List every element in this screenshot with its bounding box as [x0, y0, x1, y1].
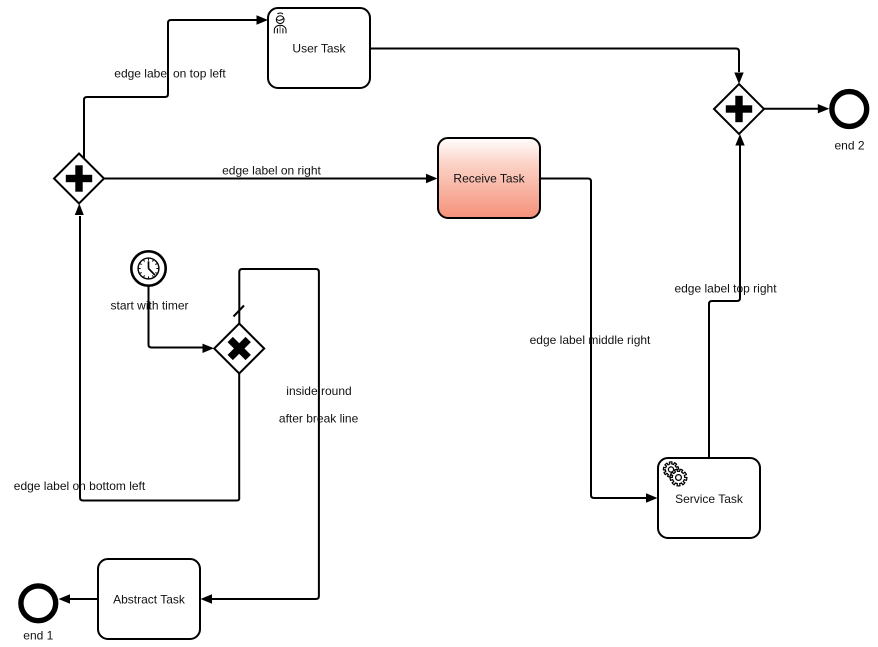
- svg-text:end 1: end 1: [23, 629, 53, 643]
- svg-text:edge label top right: edge label top right: [674, 282, 777, 296]
- svg-text:start with timer: start with timer: [110, 299, 188, 313]
- wire gateway X to Abstract Task (inside round, after break line): [201, 269, 319, 604]
- default flow break slash marker: [234, 306, 245, 317]
- task Service Task: [658, 458, 760, 538]
- end event end 1: [21, 586, 56, 621]
- parallel gateway1: [54, 154, 104, 204]
- svg-text:end 2: end 2: [834, 139, 864, 153]
- wire Abstract Task to end 1: [59, 594, 99, 603]
- timer start event: [131, 251, 165, 285]
- wire Service Task to gateway2: [709, 134, 745, 457]
- svg-text:Service Task: Service Task: [675, 492, 744, 506]
- wire User Task to gateway2: [370, 49, 744, 85]
- svg-text:Abstract Task: Abstract Task: [113, 593, 186, 607]
- svg-text:edge label on bottom left: edge label on bottom left: [14, 479, 146, 493]
- task User Task: [268, 8, 370, 88]
- svg-text:edge label middle right: edge label middle right: [530, 333, 651, 347]
- svg-text:edge label on right: edge label on right: [222, 164, 321, 178]
- wire gateway X to gateway1 (bottom left loop): [75, 204, 239, 501]
- wire Receive Task to Service Task: [540, 179, 658, 503]
- user icon: [274, 13, 286, 33]
- svg-text:inside round: inside round: [286, 384, 351, 398]
- svg-text:User Task: User Task: [292, 42, 346, 56]
- end event end 2: [832, 92, 867, 127]
- wire gateway1 to Receive Task: [104, 174, 438, 183]
- svg-text:Receive Task: Receive Task: [453, 172, 525, 186]
- task Receive Task: [438, 138, 540, 218]
- svg-text:edge label on top left: edge label on top left: [114, 67, 226, 81]
- task Abstract Task: [98, 559, 200, 639]
- wire timer start to gateway X: [149, 286, 215, 353]
- exclusive gateway X: [214, 324, 264, 374]
- service gears icon: [663, 462, 687, 486]
- wire gateway2 to end 2: [764, 104, 829, 113]
- svg-text:after break line: after break line: [279, 412, 359, 426]
- parallel gateway2: [714, 84, 764, 134]
- wire gateway1 to User Task (top left stair): [84, 15, 268, 158]
